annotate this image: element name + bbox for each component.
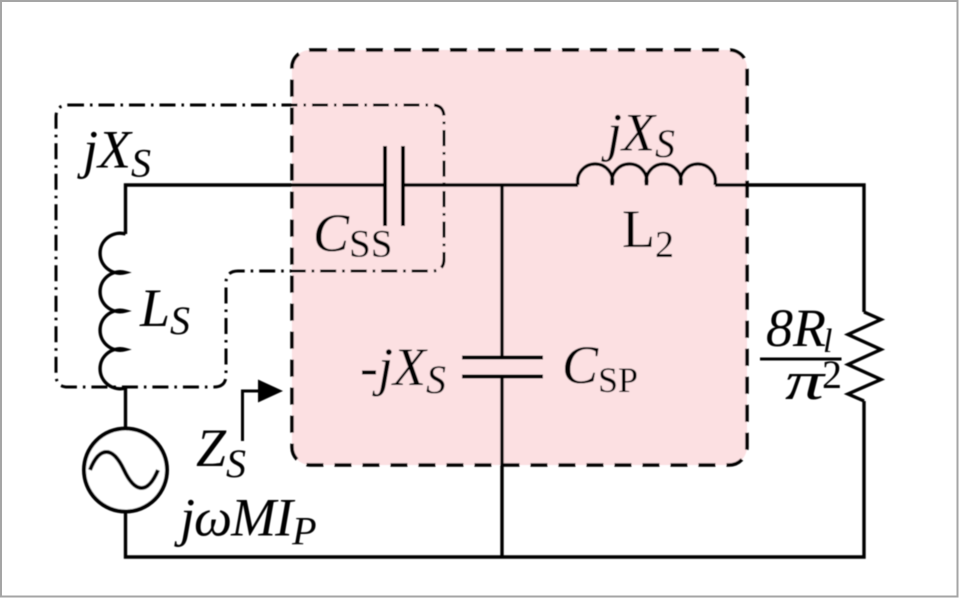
svg-text:π: π [785, 351, 827, 411]
svg-text:2: 2 [822, 352, 842, 397]
